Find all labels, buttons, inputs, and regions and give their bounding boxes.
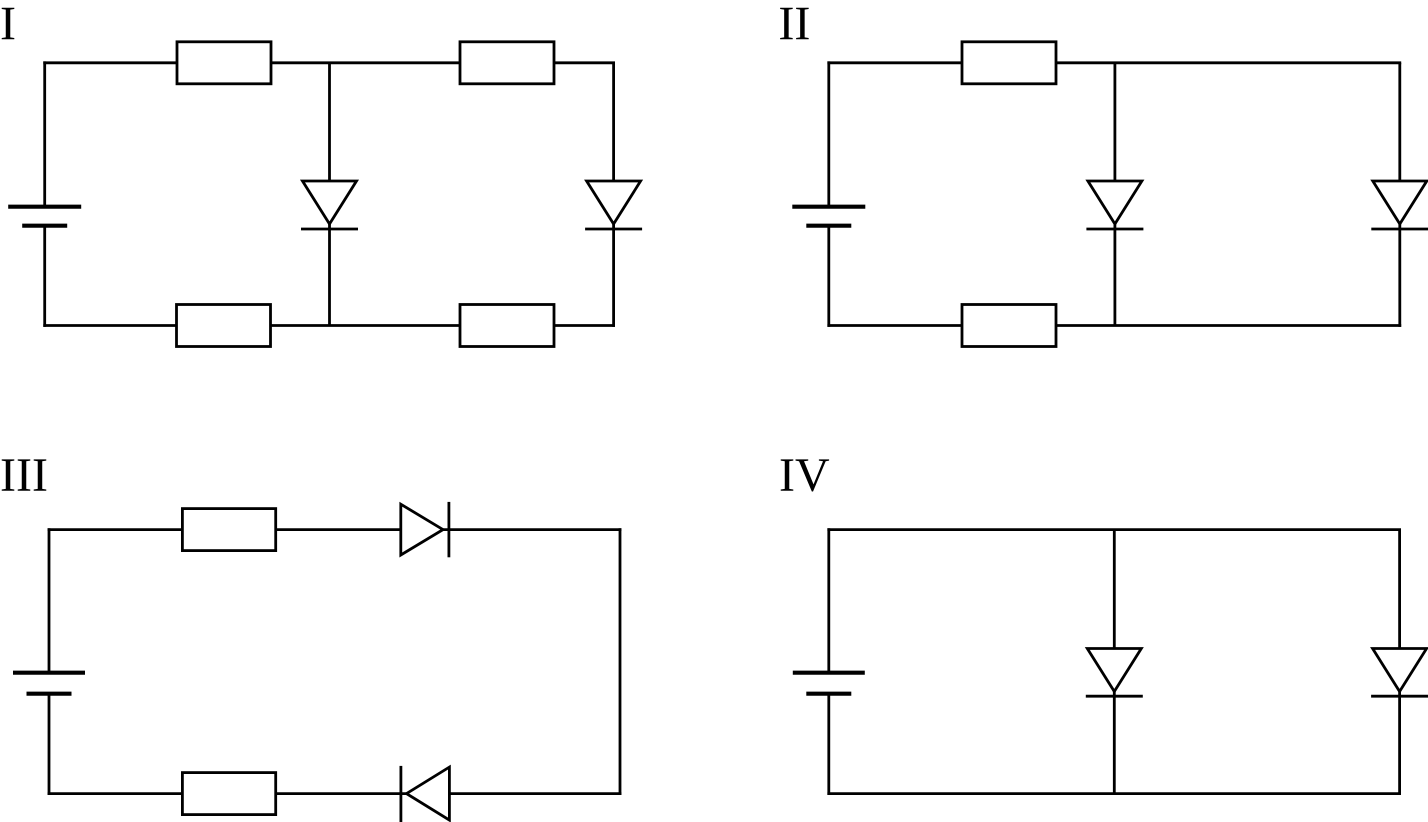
diode D5 (top branch, points right)	[401, 502, 449, 557]
wire right (circuit III)	[619, 528, 622, 795]
wire bottom (circuit I)	[43, 324, 615, 327]
wire right lower (circuit I)	[612, 223, 615, 327]
wire left lower segment (circuit IV)	[827, 694, 830, 795]
wire bottom left segment (circuit III)	[48, 792, 407, 795]
diode D3 (middle branch, points down)	[1086, 181, 1143, 229]
battery B4 short plate	[806, 692, 851, 696]
wire left upper segment (circuit IV)	[827, 528, 830, 671]
label IV	[781, 459, 829, 491]
battery B1 short plate	[22, 224, 67, 228]
wire bottom (circuit IV)	[827, 792, 1401, 795]
wire top (circuit II)	[827, 61, 1401, 64]
resistor R8 (bottom box, circuit III)	[182, 773, 275, 815]
battery B3 long plate	[13, 671, 85, 675]
wire right upper (circuit II)	[1398, 63, 1401, 183]
wire top right segment after diode (circuit III)	[443, 528, 621, 531]
battery B2 short plate	[806, 224, 851, 228]
wire right lower (circuit IV)	[1398, 691, 1401, 796]
wire top (circuit III)	[48, 528, 401, 531]
wire right lower (circuit II)	[1398, 223, 1401, 327]
wire right upper (circuit IV)	[1398, 530, 1401, 650]
label III	[2, 459, 47, 490]
wire middle branch upper (circuit IV)	[1113, 530, 1116, 650]
resistor R1 (top-left box, circuit I)	[177, 42, 271, 84]
wire left lower segment (circuit I)	[43, 226, 46, 327]
wire middle branch lower (circuit IV)	[1113, 691, 1116, 794]
battery B2 long plate	[792, 205, 865, 209]
wire left upper segment (circuit III)	[48, 528, 51, 671]
resistor R5 (top box, circuit II)	[962, 42, 1056, 84]
wire left lower segment (circuit II)	[827, 226, 830, 327]
resistor R6 (bottom box, circuit II)	[962, 305, 1056, 347]
wire left upper segment (circuit I)	[43, 61, 46, 205]
wire middle branch lower (circuit I)	[328, 223, 331, 326]
wire middle branch upper (circuit I)	[328, 63, 331, 183]
wire bottom right segment (circuit III)	[449, 792, 621, 795]
label II	[780, 8, 809, 39]
diode D8 (right branch, points down)	[1371, 649, 1428, 697]
battery B4 long plate	[793, 671, 865, 675]
resistor R7 (top box, circuit III)	[182, 509, 275, 551]
wire middle branch upper (circuit II)	[1114, 63, 1117, 183]
diode D1 (middle branch, points down)	[301, 181, 358, 229]
resistor R4 (bottom-right box, circuit I)	[460, 305, 554, 347]
wire top (circuit I)	[43, 61, 615, 64]
label I	[2, 8, 15, 39]
diode D4 (right branch, points down)	[1371, 181, 1428, 229]
diode D2 (right branch, points down)	[585, 181, 642, 229]
battery B1 long plate	[8, 205, 81, 209]
wire left upper segment (circuit II)	[827, 61, 830, 205]
battery B3 short plate	[27, 692, 72, 696]
wire left lower segment (circuit III)	[48, 694, 51, 795]
diode D7 (middle branch, points down)	[1086, 649, 1143, 697]
diode D6 (bottom branch, points left)	[401, 766, 450, 822]
wire top (circuit IV)	[827, 528, 1401, 531]
wire middle branch lower (circuit II)	[1114, 223, 1117, 326]
wire bottom (circuit II)	[827, 324, 1401, 327]
resistor R2 (top-right box, circuit I)	[460, 42, 554, 84]
resistor R3 (bottom-left box, circuit I)	[177, 305, 271, 347]
wire right upper (circuit I)	[612, 63, 615, 183]
